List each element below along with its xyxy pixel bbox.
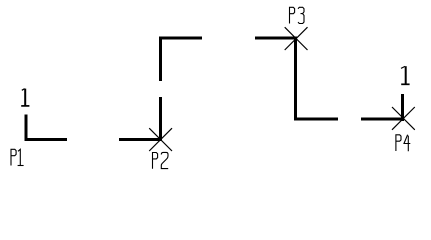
wire vertical segment lower (second figure) bbox=[159, 97, 162, 141]
label P4 bbox=[396, 135, 410, 152]
wire vertical segment at P1 bbox=[25, 115, 28, 142]
point marker X at P2 bbox=[149, 128, 172, 151]
wire vertical segment below P3 bbox=[294, 37, 297, 121]
wire horizontal segment at P1 bbox=[25, 138, 68, 141]
label 1 (above P1 corner) bbox=[21, 89, 29, 106]
wire vertical segment into P4 bbox=[401, 94, 404, 121]
point marker X at P4 bbox=[392, 107, 415, 130]
label 1 (above P4) bbox=[401, 66, 410, 84]
wire bottom horizontal segment into P2 bbox=[119, 138, 162, 141]
wire horizontal segment into P4 bbox=[361, 118, 404, 121]
label P3 bbox=[290, 7, 305, 23]
label P1 bbox=[11, 149, 24, 165]
wire horizontal segment into P3 bbox=[255, 37, 297, 40]
wire bottom horizontal segment (third figure) bbox=[294, 118, 338, 121]
point marker X at P3 bbox=[285, 27, 308, 50]
wire top horizontal segment at second figure bbox=[159, 37, 202, 40]
label P2 bbox=[153, 152, 169, 168]
wire vertical segment upper (second figure) bbox=[159, 37, 162, 82]
